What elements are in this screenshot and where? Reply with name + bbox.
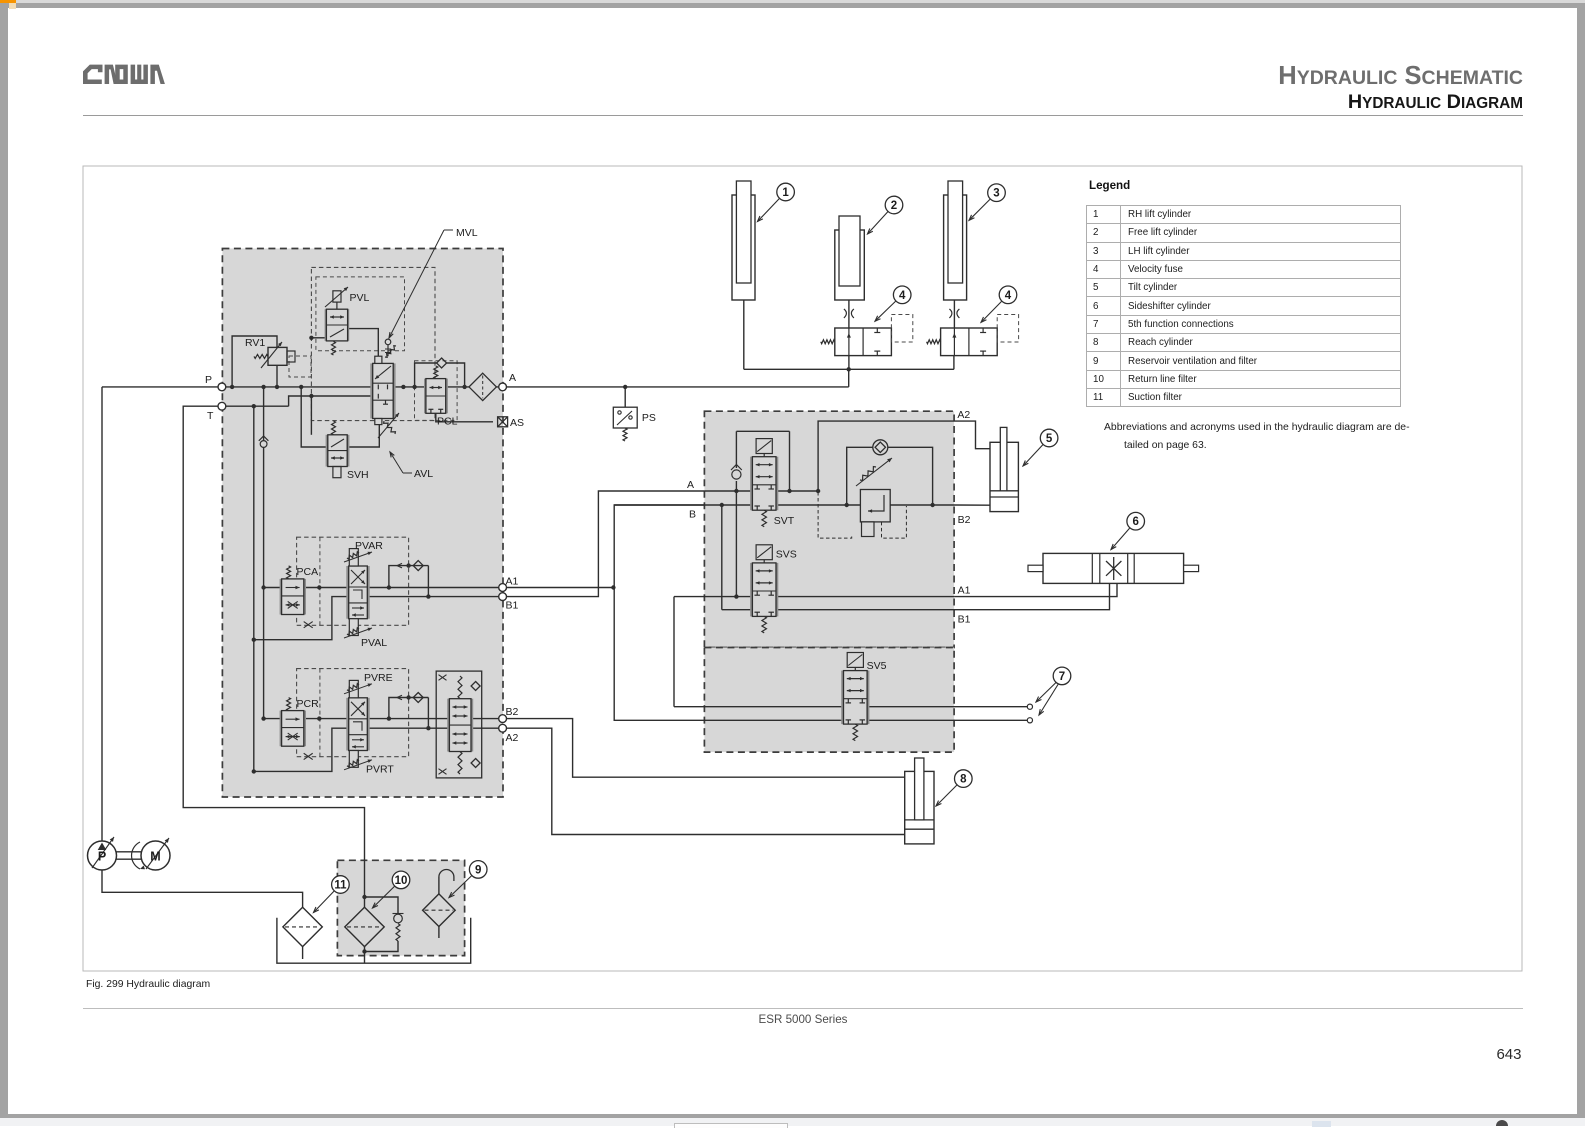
svg-text:M: M (150, 850, 160, 864)
svg-text:PCA: PCA (297, 566, 319, 578)
svg-text:11: 11 (334, 880, 347, 892)
svg-text:3: 3 (993, 188, 999, 200)
svg-text:2: 2 (891, 200, 897, 212)
svg-text:B: B (689, 509, 696, 521)
svg-text:B1: B1 (958, 614, 971, 626)
svg-text:5: 5 (1046, 433, 1053, 445)
svg-text:AVL: AVL (414, 468, 433, 480)
svg-text:B1: B1 (506, 600, 519, 612)
svg-text:10: 10 (395, 875, 408, 887)
svg-text:SVT: SVT (774, 515, 795, 527)
svg-text:A1: A1 (958, 585, 971, 597)
svg-text:7: 7 (1059, 671, 1065, 683)
svg-text:T: T (207, 410, 214, 422)
svg-text:PVRE: PVRE (364, 672, 393, 684)
svg-text:1: 1 (782, 187, 789, 199)
svg-text:8: 8 (960, 774, 967, 786)
svg-text:SVH: SVH (347, 469, 369, 481)
svg-text:PVRT: PVRT (366, 764, 394, 776)
svg-text:SV5: SV5 (867, 660, 887, 672)
svg-text:B2: B2 (958, 514, 971, 526)
svg-text:PCR: PCR (297, 698, 320, 710)
svg-text:A: A (509, 372, 516, 384)
svg-text:A1: A1 (506, 576, 519, 588)
svg-text:AS: AS (510, 417, 524, 429)
svg-text:RV1: RV1 (245, 337, 265, 349)
svg-text:A: A (687, 479, 694, 491)
svg-text:MVL: MVL (456, 227, 478, 239)
svg-text:4: 4 (899, 290, 906, 302)
svg-text:P: P (98, 850, 106, 864)
svg-text:A2: A2 (957, 409, 970, 421)
svg-text:6: 6 (1132, 516, 1138, 528)
svg-text:PCL: PCL (437, 416, 458, 428)
svg-text:PS: PS (642, 412, 656, 424)
svg-text:PVL: PVL (350, 292, 370, 304)
svg-text:B2: B2 (506, 706, 519, 718)
svg-text:9: 9 (475, 864, 481, 876)
svg-text:PVAL: PVAL (361, 637, 387, 649)
svg-text:A2: A2 (506, 732, 519, 744)
svg-text:4: 4 (1005, 290, 1012, 302)
svg-text:PVAR: PVAR (355, 540, 383, 552)
svg-text:P: P (205, 374, 212, 386)
svg-text:SVS: SVS (776, 549, 797, 561)
